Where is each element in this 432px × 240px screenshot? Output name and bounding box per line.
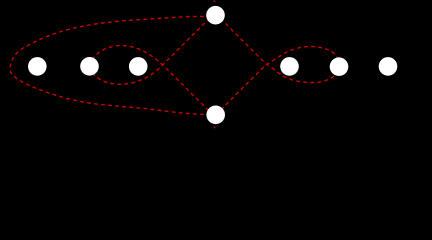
- node L1: [28, 57, 47, 76]
- node L3: [129, 57, 148, 76]
- hyperedge arc: top node around L1 to bottom node: [10, 16, 211, 114]
- node R3: [379, 57, 398, 76]
- node R1: [280, 57, 299, 76]
- dash above top node: [213, 0, 215, 2]
- node R2: [330, 57, 349, 76]
- top node: [206, 6, 225, 25]
- node L2: [80, 57, 99, 76]
- hyperedge arc: bottom node over R1 to R2: [216, 47, 340, 115]
- hyperedge arc: L2 under L3 to top node: [89, 12, 215, 84]
- hyperedge arc: L2 over L3 to bottom node: [89, 46, 215, 118]
- bottom node: [206, 106, 225, 125]
- dash below bottom node: [213, 127, 215, 129]
- hyperedge arc: top node under R1 to R2: [216, 14, 340, 83]
